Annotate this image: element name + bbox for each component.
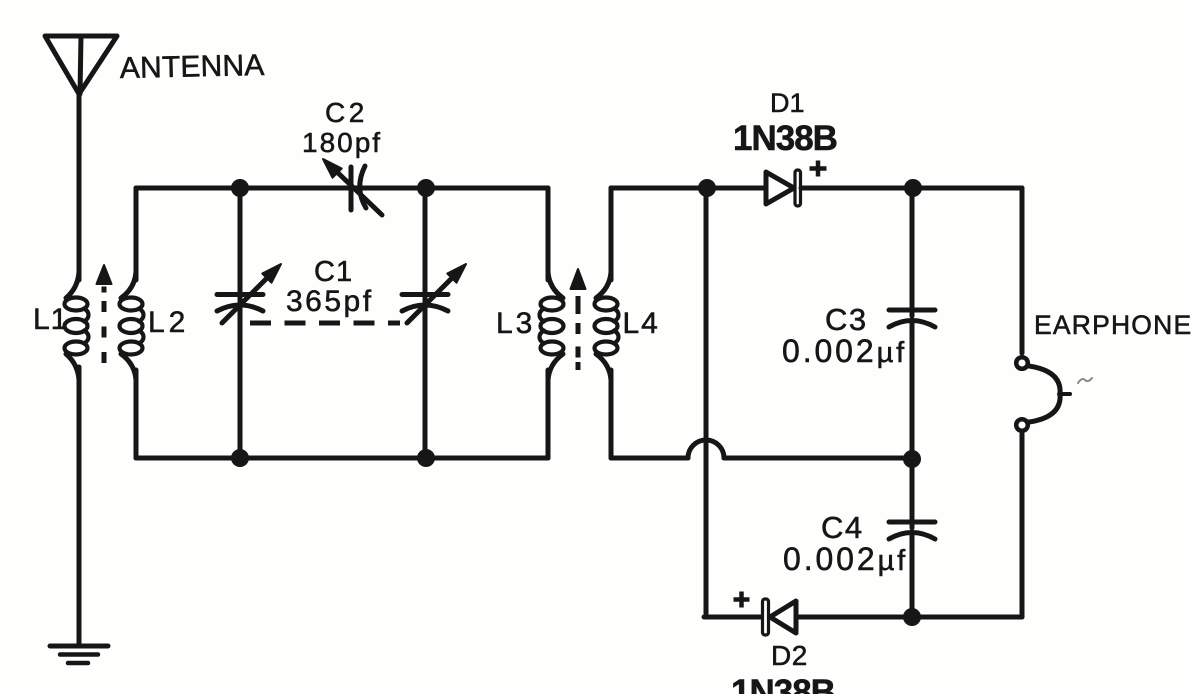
svg-text:D2: D2 [771,640,808,671]
svg-text:L1: L1 [33,303,68,336]
svg-text:C2: C2 [325,97,368,128]
svg-text:1N38B: 1N38B [733,119,837,158]
svg-text:L2: L2 [148,306,189,339]
svg-text:1N38B: 1N38B [731,673,835,694]
svg-text:D1: D1 [770,88,805,118]
svg-text:C4: C4 [821,510,864,545]
svg-text:C1: C1 [314,256,353,288]
svg-text:L4: L4 [623,307,660,340]
svg-text:EARPHONE: EARPHONE [1034,310,1192,340]
svg-text:0.002µf: 0.002µf [782,333,907,369]
svg-text:L3: L3 [496,307,535,340]
svg-text:180pf: 180pf [302,127,382,158]
svg-text:365pf: 365pf [286,285,374,318]
svg-text:0.002µf: 0.002µf [783,541,908,577]
svg-text:C3: C3 [825,302,868,337]
svg-text:ANTENNA: ANTENNA [119,49,264,85]
